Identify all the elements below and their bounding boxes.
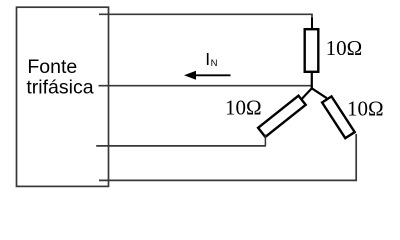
resistor R1 (vertical) [305, 29, 319, 72]
node N (Y junction) leads [300, 88, 327, 100]
svg-text:trifásica: trifásica [26, 76, 93, 98]
svg-text:Fonte: Fonte [27, 56, 77, 78]
wire phase C (bottom) [99, 134, 356, 180]
R1 bottom lead to node N [311, 72, 313, 88]
resistor R1 top lead [311, 18, 313, 29]
svg-text:10Ω: 10Ω [326, 36, 363, 60]
svg-text:I: I [205, 49, 210, 69]
R2 bottom lead [264, 135, 266, 147]
wire phase A (top) [99, 14, 312, 20]
wire phase B (middle) [96, 145, 265, 147]
resistor R3 (right diagonal) [322, 96, 355, 138]
resistor R2 (left diagonal) [258, 96, 306, 137]
svg-text:10Ω: 10Ω [225, 96, 262, 120]
source box (Fonte trifásica) [17, 7, 109, 186]
svg-text:10Ω: 10Ω [347, 97, 384, 121]
current arrow IN [193, 74, 231, 76]
wire neutral N [99, 85, 312, 87]
svg-text:N: N [211, 58, 218, 69]
